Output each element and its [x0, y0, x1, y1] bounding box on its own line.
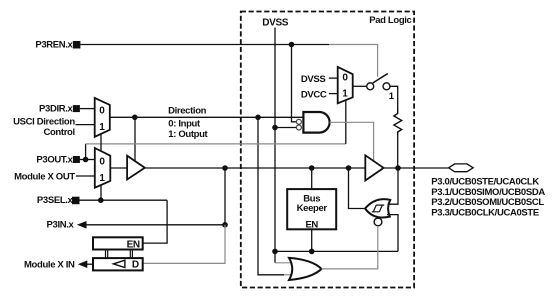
svg-text:DVCC: DVCC [301, 89, 327, 100]
wire bus keeper bottom stub [311, 229, 313, 251]
wire DVSS mux stub [329, 77, 338, 79]
switch lever [373, 74, 388, 84]
label P3OUT.x [36, 154, 73, 165]
wire DVCC mux stub [329, 93, 338, 95]
wire P3OUT.x stub [79, 159, 95, 161]
wire P3REN to AND upper input [292, 45, 297, 122]
node junction P3OUT feedback [83, 157, 89, 163]
wire P3OUT feedback to supply mux select [86, 143, 346, 145]
node junction bus keeper bottom [309, 249, 315, 255]
arrow Module X IN [78, 260, 88, 268]
latch EN box [93, 237, 143, 250]
wire P3REN.x horizontal [81, 45, 378, 77]
svg-text:DVSS: DVSS [262, 17, 289, 28]
wire P3SEL to EN latch [143, 200, 167, 243]
svg-text:EN: EN [127, 239, 140, 250]
wire OR output to schmitt enable [322, 226, 378, 269]
wire select riser to output mux [100, 185, 102, 200]
label pin names [431, 177, 545, 219]
svg-text:P3REN.x: P3REN.x [35, 40, 73, 51]
svg-text:1: 1 [99, 122, 105, 133]
svg-text:Keeper: Keeper [297, 203, 328, 214]
wire main output line [145, 167, 365, 169]
node junction bus keeper top [309, 165, 315, 171]
svg-text:P3IN.x: P3IN.x [47, 219, 75, 230]
wire bus keeper top stub [311, 168, 313, 189]
label Module X OUT [14, 171, 75, 182]
wire keeper net horizontal [275, 250, 398, 252]
wire Direction output [110, 116, 304, 118]
svg-text:1: 1 [342, 88, 348, 99]
wire USCI control stub [76, 124, 95, 126]
buffer output small [127, 156, 145, 180]
svg-text:0: 0 [342, 72, 348, 83]
latch D box [93, 258, 143, 271]
svg-text:Module X IN: Module X IN [24, 260, 75, 271]
resistor pullup R [394, 108, 402, 136]
wire DVSS supply riser [274, 28, 276, 263]
switch REN circle left [367, 83, 374, 90]
label P3DIR.x [39, 104, 74, 115]
wire supply mux select riser [345, 101, 347, 144]
wire P3SEL.x horizontal [80, 199, 168, 201]
mux direction select [95, 98, 110, 137]
mux pull resistor supply [338, 67, 353, 103]
svg-text:0: 0 [99, 105, 105, 116]
wire select riser between muxes [100, 134, 102, 151]
label Module X IN [24, 260, 75, 271]
wire resistor to pad [397, 135, 399, 168]
wire schmitt lower input [387, 215, 398, 252]
port marker P3SEL.x [72, 197, 80, 205]
wire DVSS to OR upper input [275, 262, 297, 264]
label P3SEL.x [37, 195, 74, 206]
wire P3IN.x horizontal [87, 224, 226, 226]
svg-text:1: Output: 1: Output [168, 129, 208, 140]
buffer pad driver [365, 155, 383, 180]
svg-text:P3.3/UCB0CLK/UCA0STE: P3.3/UCB0CLK/UCA0STE [431, 208, 539, 219]
mux output select [95, 148, 111, 188]
port marker P3REN.x [73, 41, 81, 49]
wire direction to small buffer enable [134, 117, 136, 161]
wire direction riser to OR gate lower input [258, 117, 297, 274]
pin hexagon [449, 164, 474, 172]
wire P3DIR.x stub [80, 108, 95, 110]
label Pad Logic [369, 15, 411, 26]
wire latch D input [143, 225, 225, 264]
node junction DVSS keeper [272, 249, 278, 255]
node junction direction to buffer enable [132, 115, 138, 121]
OR gate schmitt enable [289, 258, 322, 280]
node junction P3IN wire [222, 222, 228, 228]
svg-text:Pad Logic: Pad Logic [369, 15, 411, 26]
wire schmitt output loop [349, 168, 366, 209]
label P3REN.x [35, 40, 73, 51]
svg-text:1: 1 [99, 173, 105, 184]
wire AND output to driver enable [330, 122, 374, 161]
wire mux to buffer [110, 167, 127, 169]
svg-text:DVSS: DVSS [301, 74, 325, 85]
wire P3OUT feedback riser [85, 144, 87, 160]
label switch 1 [389, 91, 395, 102]
svg-text:USCI Direction: USCI Direction [13, 117, 75, 128]
label USCI Direction Control [13, 117, 75, 139]
arrow P3IN.x [77, 221, 87, 229]
label Direction annotation [168, 106, 208, 140]
AND gate pullup enable [303, 112, 329, 133]
label DVCC mux input [301, 89, 327, 100]
port marker P3OUT.x [73, 156, 80, 163]
AND gate input bubbles [296, 119, 301, 130]
schmitt enable bubble [374, 218, 382, 226]
svg-text:Direction: Direction [168, 106, 207, 117]
wire switch to resistor [390, 86, 398, 107]
wire P3IN riser [224, 168, 226, 225]
schmitt trigger input buffer [365, 199, 390, 217]
wire schmitt upper input [388, 168, 398, 204]
switch REN circle right [383, 83, 390, 90]
wire supply mux output [353, 85, 367, 87]
node junction P3IN tap top [222, 165, 228, 171]
label DVSS top [262, 17, 289, 28]
svg-text:0: Input: 0: Input [168, 118, 201, 129]
svg-text:Control: Control [43, 127, 74, 138]
svg-text:EN: EN [305, 219, 318, 230]
svg-text:P3DIR.x: P3DIR.x [39, 104, 74, 115]
label DVSS mux input [301, 74, 325, 85]
latch connector legs [106, 250, 133, 259]
port marker P3DIR.x [73, 105, 80, 112]
svg-text:Module X OUT: Module X OUT [14, 171, 75, 182]
node junction P3SEL select [98, 197, 104, 203]
svg-text:0: 0 [99, 156, 105, 167]
wire Module X IN stub [87, 263, 93, 265]
svg-text:P3SEL.x: P3SEL.x [37, 195, 74, 206]
wire DVSS to AND lower input [275, 127, 296, 129]
pad logic dashed boundary [241, 12, 414, 288]
label P3IN.x [47, 219, 75, 230]
bus keeper box [287, 189, 336, 230]
wire pad output line [384, 167, 449, 169]
node junction pad to schmitt [395, 165, 401, 171]
svg-text:1: 1 [389, 91, 395, 102]
node junction direction to OR gate [255, 115, 261, 121]
svg-text:P3OUT.x: P3OUT.x [36, 154, 73, 165]
node junction DVSS to AND [272, 125, 278, 131]
wire Module X OUT stub [76, 175, 95, 177]
node junction P3REN riser [289, 42, 295, 48]
svg-text:D: D [132, 260, 139, 271]
node junction schmitt loop [346, 165, 352, 171]
